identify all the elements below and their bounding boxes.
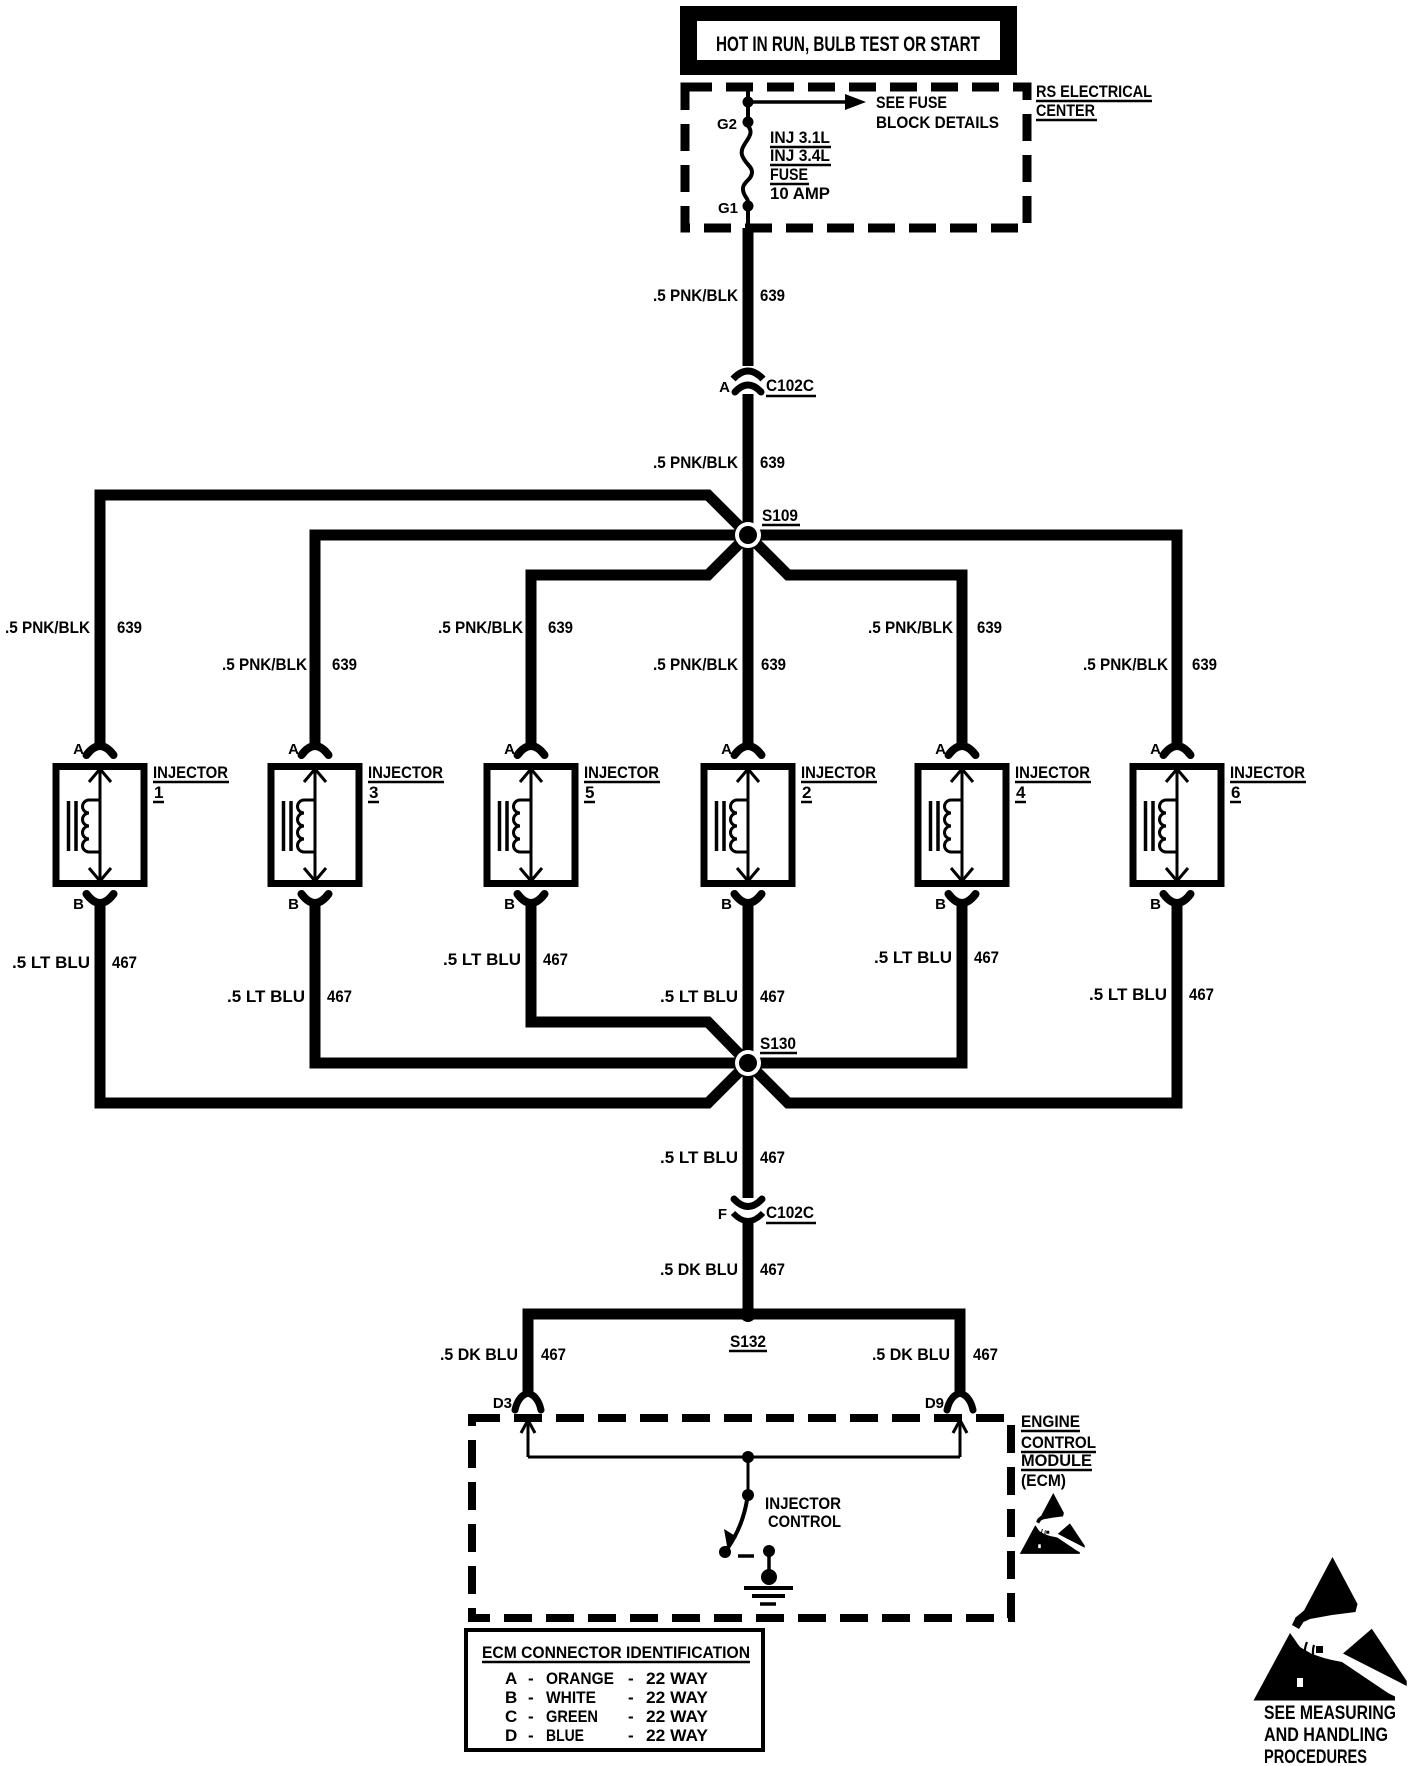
wire label injector 3 branch .5 PNK/BLK 639 bbox=[222, 655, 357, 674]
svg-text:467: 467 bbox=[760, 1260, 785, 1279]
wire splice to injector 3 (branch) bbox=[315, 535, 748, 738]
svg-text:467: 467 bbox=[112, 953, 137, 972]
svg-text:.5 LT BLU: .5 LT BLU bbox=[443, 950, 521, 969]
fuse INJ 3.1L / INJ 3.4L 10 AMP bbox=[742, 126, 752, 202]
label INJECTOR 2 bbox=[801, 763, 877, 802]
connector pin B of injector 5 bbox=[504, 894, 544, 920]
injector 1 (solenoid box) bbox=[56, 767, 144, 884]
svg-text:CENTER: CENTER bbox=[1036, 101, 1095, 120]
connector pin A of injector 2 bbox=[721, 725, 761, 758]
svg-text:-: - bbox=[628, 1688, 634, 1707]
svg-text:B: B bbox=[1150, 896, 1161, 913]
svg-text:-: - bbox=[628, 1669, 634, 1688]
wire injector 5 pin B to splice S130 bbox=[531, 905, 748, 1063]
svg-text:B: B bbox=[288, 896, 299, 913]
svg-text:22 WAY: 22 WAY bbox=[646, 1707, 709, 1726]
wire injector 6 pin B to splice S130 bbox=[748, 905, 1177, 1103]
junction dot to fuse block arrow bbox=[743, 97, 754, 108]
svg-text:GREEN: GREEN bbox=[546, 1707, 598, 1726]
svg-text:PROCEDURES: PROCEDURES bbox=[1264, 1747, 1367, 1766]
svg-text:ECM CONNECTOR IDENTIFICATION: ECM CONNECTOR IDENTIFICATION bbox=[482, 1643, 750, 1662]
node G2 bbox=[717, 116, 754, 133]
svg-text:22 WAY: 22 WAY bbox=[646, 1688, 709, 1707]
svg-text:.5 LT BLU: .5 LT BLU bbox=[12, 953, 90, 972]
svg-text:ENGINE: ENGINE bbox=[1021, 1412, 1080, 1431]
svg-text:22 WAY: 22 WAY bbox=[646, 1726, 709, 1745]
svg-text:467: 467 bbox=[760, 1148, 785, 1167]
wire label injector 6 .5 LT BLU 467 bbox=[1089, 985, 1214, 1004]
svg-text:INJ 3.1L: INJ 3.1L bbox=[770, 128, 830, 147]
node G1 bbox=[718, 200, 754, 217]
label SEE MEASURING AND HANDLING PROCEDURES bbox=[1264, 1703, 1396, 1766]
svg-text:639: 639 bbox=[977, 618, 1002, 637]
svg-text:467: 467 bbox=[974, 948, 999, 967]
svg-text:A: A bbox=[719, 379, 730, 396]
wire label left .5 DK BLU 467 bbox=[440, 1345, 566, 1364]
svg-text:5: 5 bbox=[585, 783, 594, 802]
injector 5 (solenoid box) bbox=[487, 767, 575, 884]
svg-text:.5 LT BLU: .5 LT BLU bbox=[660, 1148, 738, 1167]
svg-text:D3: D3 bbox=[493, 1395, 512, 1412]
internal arrow to pin D9 bbox=[953, 1420, 967, 1457]
connector C102C pin A bbox=[719, 371, 816, 396]
connector pin B of injector 2 bbox=[721, 894, 761, 920]
svg-text:-: - bbox=[628, 1726, 634, 1745]
fuse value label bbox=[770, 128, 831, 203]
svg-text:.5 PNK/BLK: .5 PNK/BLK bbox=[653, 286, 739, 305]
svg-text:G1: G1 bbox=[718, 200, 738, 217]
svg-text:.5 LT BLU: .5 LT BLU bbox=[227, 987, 305, 1006]
wire G1 down to RS box edge bbox=[746, 206, 750, 228]
connector C102C pin F bbox=[718, 1199, 816, 1223]
wire label injector 2 branch .5 PNK/BLK 639 bbox=[653, 655, 786, 674]
connector pin D9 bbox=[925, 1393, 973, 1412]
svg-text:-: - bbox=[628, 1707, 634, 1726]
svg-text:CONTROL: CONTROL bbox=[1021, 1433, 1096, 1452]
connector pin B of injector 3 bbox=[288, 894, 328, 920]
wire label injector 4 branch .5 PNK/BLK 639 bbox=[868, 618, 1002, 637]
svg-text:B: B bbox=[73, 896, 84, 913]
injector control switch bbox=[719, 1489, 841, 1558]
wire label .5 DK BLU 467 bbox=[660, 1260, 785, 1279]
label INJECTOR 6 bbox=[1230, 763, 1306, 802]
arrow SEE FUSE BLOCK DETAILS bbox=[748, 93, 999, 132]
wire label injector 5 .5 LT BLU 467 bbox=[443, 950, 568, 969]
splice S109 bbox=[735, 506, 800, 548]
connector pin B of injector 6 bbox=[1150, 894, 1190, 920]
svg-text:B: B bbox=[721, 896, 732, 913]
svg-text:C102C: C102C bbox=[766, 376, 814, 395]
ECM connector identification table bbox=[466, 1630, 763, 1750]
svg-text:.5 DK BLU: .5 DK BLU bbox=[660, 1260, 738, 1279]
svg-text:.5 DK BLU: .5 DK BLU bbox=[440, 1345, 518, 1364]
svg-text:639: 639 bbox=[760, 453, 785, 472]
svg-text:467: 467 bbox=[543, 950, 568, 969]
label ENGINE CONTROL MODULE (ECM) bbox=[1021, 1412, 1096, 1490]
svg-text:CONTROL: CONTROL bbox=[768, 1512, 841, 1531]
svg-text:INJECTOR: INJECTOR bbox=[801, 763, 876, 782]
svg-text:639: 639 bbox=[548, 618, 573, 637]
svg-text:A: A bbox=[935, 741, 946, 758]
splice S130 bbox=[735, 1034, 797, 1076]
svg-text:INJECTOR: INJECTOR bbox=[1230, 763, 1305, 782]
svg-text:467: 467 bbox=[327, 987, 352, 1006]
connector pin A of injector 4 bbox=[935, 725, 975, 758]
svg-text:A: A bbox=[1150, 741, 1161, 758]
svg-text:RS ELECTRICAL: RS ELECTRICAL bbox=[1036, 82, 1152, 101]
wire label injector 1 .5 LT BLU 467 bbox=[12, 953, 137, 972]
svg-text:.5 PNK/BLK: .5 PNK/BLK bbox=[438, 618, 524, 637]
wire injector 4 pin B to splice S130 bbox=[748, 905, 962, 1063]
wire splice S132 to ECM pin D3 bbox=[528, 1314, 748, 1392]
svg-text:467: 467 bbox=[1189, 985, 1214, 1004]
svg-text:S130: S130 bbox=[760, 1034, 796, 1053]
svg-text:639: 639 bbox=[1192, 655, 1217, 674]
wire splice to injector 4 (branch) bbox=[748, 535, 962, 738]
svg-text:3: 3 bbox=[369, 783, 378, 802]
internal arrow to pin D3 bbox=[521, 1420, 535, 1457]
svg-text:22 WAY: 22 WAY bbox=[646, 1669, 709, 1688]
svg-text:FUSE: FUSE bbox=[770, 165, 808, 184]
connector pin D3 bbox=[493, 1393, 541, 1412]
wire label right .5 DK BLU 467 bbox=[872, 1345, 998, 1364]
svg-text:-: - bbox=[528, 1707, 534, 1726]
wire label injector 3 .5 LT BLU 467 bbox=[227, 987, 352, 1006]
svg-text:A: A bbox=[73, 741, 84, 758]
wire label .5 PNK/BLK 639 bbox=[653, 286, 785, 305]
wire RS box down to connector C102C pin A bbox=[743, 228, 754, 366]
svg-text:MODULE: MODULE bbox=[1021, 1451, 1092, 1470]
wire label injector 2 .5 LT BLU 467 bbox=[660, 987, 785, 1006]
ESD symbol small (ECM static sensitive) bbox=[1020, 1493, 1085, 1554]
svg-text:D9: D9 bbox=[925, 1395, 944, 1412]
RS Electrical Center dashed box bbox=[685, 87, 1027, 228]
splice S132 bbox=[729, 1306, 767, 1351]
power feed box HOT IN RUN, BULB TEST OR START bbox=[680, 6, 1017, 75]
svg-text:A: A bbox=[505, 1669, 517, 1688]
label RS ELECTRICAL CENTER bbox=[1036, 82, 1152, 120]
svg-text:4: 4 bbox=[1016, 783, 1026, 802]
svg-text:-: - bbox=[528, 1669, 534, 1688]
svg-text:AND HANDLING: AND HANDLING bbox=[1264, 1725, 1388, 1746]
wire splice to injector 2 (branch) bbox=[743, 535, 754, 738]
svg-text:BLUE: BLUE bbox=[546, 1726, 584, 1745]
wire label injector 1 branch .5 PNK/BLK 639 bbox=[5, 618, 142, 637]
svg-text:INJECTOR: INJECTOR bbox=[153, 763, 228, 782]
svg-text:.5 PNK/BLK: .5 PNK/BLK bbox=[222, 655, 308, 674]
wire splice to injector 1 (branch) bbox=[100, 495, 748, 738]
connector pin A of injector 6 bbox=[1150, 725, 1190, 758]
svg-text:(ECM): (ECM) bbox=[1021, 1471, 1066, 1490]
svg-text:.5 LT BLU: .5 LT BLU bbox=[874, 948, 952, 967]
svg-text:INJECTOR: INJECTOR bbox=[368, 763, 443, 782]
svg-text:A: A bbox=[504, 741, 515, 758]
svg-text:S132: S132 bbox=[730, 1332, 766, 1351]
svg-text:639: 639 bbox=[117, 618, 142, 637]
label INJECTOR 1 bbox=[153, 763, 229, 802]
wire C102C down to splice S109 bbox=[743, 394, 754, 535]
svg-text:-: - bbox=[528, 1688, 534, 1707]
wire label injector 5 branch .5 PNK/BLK 639 bbox=[438, 618, 573, 637]
svg-text:2: 2 bbox=[802, 783, 811, 802]
svg-text:467: 467 bbox=[541, 1345, 566, 1364]
svg-text:.5 PNK/BLK: .5 PNK/BLK bbox=[653, 655, 739, 674]
svg-text:F: F bbox=[718, 1206, 727, 1223]
wire splice to injector 6 (branch) bbox=[748, 535, 1177, 738]
junction node on internal wire bbox=[742, 1451, 754, 1463]
svg-text:.5 PNK/BLK: .5 PNK/BLK bbox=[5, 618, 91, 637]
connector pin B of injector 1 bbox=[73, 894, 113, 920]
engine control module ECM dashed box bbox=[472, 1418, 1011, 1618]
svg-text:B: B bbox=[505, 1688, 517, 1707]
svg-text:467: 467 bbox=[973, 1345, 998, 1364]
wire label injector 6 branch .5 PNK/BLK 639 bbox=[1083, 655, 1217, 674]
switch contact to ground bbox=[761, 1545, 777, 1585]
svg-text:-: - bbox=[528, 1726, 534, 1745]
svg-text:B: B bbox=[504, 896, 515, 913]
wire label .5 PNK/BLK 639 bbox=[653, 453, 785, 472]
wire splice S132 to ECM pin D9 bbox=[748, 1314, 960, 1392]
wire label injector 4 .5 LT BLU 467 bbox=[874, 948, 999, 967]
svg-text:639: 639 bbox=[761, 655, 786, 674]
svg-text:INJECTOR: INJECTOR bbox=[765, 1494, 841, 1513]
svg-text:.5 PNK/BLK: .5 PNK/BLK bbox=[1083, 655, 1169, 674]
label INJECTOR 4 bbox=[1015, 763, 1091, 802]
wire junction to injector control switch bbox=[747, 1457, 750, 1495]
wire injector 3 pin B to splice S130 bbox=[315, 905, 748, 1063]
svg-text:SEE FUSE: SEE FUSE bbox=[876, 93, 947, 112]
injector 3 (solenoid box) bbox=[271, 767, 359, 884]
svg-text:C: C bbox=[505, 1707, 517, 1726]
svg-text:ORANGE: ORANGE bbox=[546, 1669, 614, 1688]
svg-text:639: 639 bbox=[760, 286, 785, 305]
svg-text:10 AMP: 10 AMP bbox=[770, 184, 830, 203]
svg-text:.5 PNK/BLK: .5 PNK/BLK bbox=[868, 618, 954, 637]
svg-text:INJECTOR: INJECTOR bbox=[1015, 763, 1090, 782]
svg-text:.5 PNK/BLK: .5 PNK/BLK bbox=[653, 453, 739, 472]
wire injector 1 pin B to splice S130 bbox=[100, 905, 748, 1103]
connector pin B of injector 4 bbox=[935, 894, 975, 920]
svg-text:WHITE: WHITE bbox=[546, 1688, 596, 1707]
svg-text:639: 639 bbox=[332, 655, 357, 674]
wire splice S130 down to connector C102C pin F bbox=[743, 1063, 754, 1198]
injector 4 (solenoid box) bbox=[918, 767, 1006, 884]
svg-text:INJECTOR: INJECTOR bbox=[584, 763, 659, 782]
label INJECTOR 5 bbox=[584, 763, 660, 802]
wire label .5 LT BLU 467 bbox=[660, 1148, 785, 1167]
svg-text:D: D bbox=[505, 1726, 517, 1745]
connector pin A of injector 1 bbox=[73, 725, 113, 758]
connector pin A of injector 3 bbox=[288, 725, 328, 758]
connector pin A of injector 5 bbox=[504, 725, 544, 758]
wire injector 2 pin B to splice S130 bbox=[743, 905, 754, 1063]
svg-text:A: A bbox=[288, 741, 299, 758]
svg-text:.5 DK BLU: .5 DK BLU bbox=[872, 1345, 950, 1364]
wire from fuse block feed down to G2 bbox=[746, 86, 750, 124]
svg-text:S109: S109 bbox=[762, 506, 798, 525]
svg-text:A: A bbox=[721, 741, 732, 758]
svg-text:INJ 3.4L: INJ 3.4L bbox=[770, 146, 830, 165]
svg-text:B: B bbox=[935, 896, 946, 913]
svg-text:BLOCK DETAILS: BLOCK DETAILS bbox=[876, 113, 999, 132]
wire splice to injector 5 (branch) bbox=[531, 535, 748, 738]
injector 6 (solenoid box) bbox=[1133, 767, 1221, 884]
svg-text:.5 LT BLU: .5 LT BLU bbox=[1089, 985, 1167, 1004]
svg-text:HOT IN RUN, BULB TEST OR START: HOT IN RUN, BULB TEST OR START bbox=[716, 33, 980, 56]
svg-text:6: 6 bbox=[1231, 783, 1240, 802]
internal wire D3 to D9 bbox=[528, 1456, 960, 1459]
svg-text:467: 467 bbox=[760, 987, 785, 1006]
ground bbox=[744, 1588, 793, 1604]
ESD symbol large (see measuring and handling procedures) bbox=[1254, 1557, 1407, 1701]
svg-text:C102C: C102C bbox=[766, 1203, 814, 1222]
svg-text:SEE MEASURING: SEE MEASURING bbox=[1264, 1703, 1396, 1724]
svg-text:G2: G2 bbox=[717, 116, 737, 133]
wire C102C pin F down to splice S132 bbox=[743, 1222, 754, 1314]
label INJECTOR 3 bbox=[368, 763, 444, 802]
svg-text:1: 1 bbox=[154, 783, 163, 802]
svg-text:.5 LT BLU: .5 LT BLU bbox=[660, 987, 738, 1006]
injector 2 (solenoid box) bbox=[704, 767, 792, 884]
